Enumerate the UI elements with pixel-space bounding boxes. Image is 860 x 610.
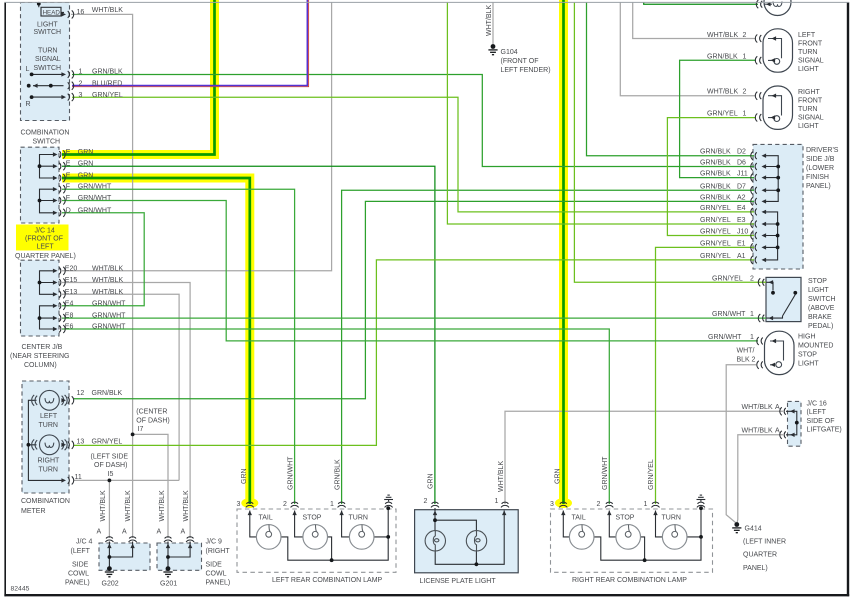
junction connector J/C 9 box [157, 543, 202, 570]
wire WHT/BLK center J/B E13 down to I5 row [62, 294, 179, 480]
svg-text:G414: G414 [745, 525, 762, 532]
page border left [4, 2, 6, 596]
svg-text:LEFT: LEFT [40, 413, 58, 420]
left rear lamp TAIL bulb feed [250, 511, 257, 537]
wire WHT/BLK J/C16 pin A to ground G414 [737, 435, 783, 523]
svg-text:GRN/WHT: GRN/WHT [92, 300, 126, 307]
svg-text:(NEAR STEERING: (NEAR STEERING [10, 353, 70, 360]
svg-text:WHT/BLK: WHT/BLK [707, 32, 738, 39]
svg-text:E3: E3 [737, 217, 746, 224]
turn signal switch R contact [32, 96, 64, 98]
svg-text:GRN/WHT: GRN/WHT [712, 311, 746, 318]
wire GRN/WHT J/C14 pin D to center J/B E4 [62, 213, 144, 306]
wire GRN/WHT J/C14 pin F to left rear lamp pin 2 [62, 189, 295, 504]
svg-text:TURN: TURN [39, 422, 58, 429]
svg-text:QUARTER PANEL): QUARTER PANEL) [15, 253, 76, 260]
left rear lamp TAIL bulb [256, 525, 281, 550]
svg-text:2: 2 [424, 498, 428, 505]
combination meter pin chevrons [68, 396, 74, 404]
svg-text:GRN/WHT: GRN/WHT [92, 313, 126, 320]
svg-text:A: A [775, 427, 780, 434]
svg-text:WHT/BLK: WHT/BLK [125, 490, 132, 521]
right rear lamp internal ground bus [594, 508, 701, 560]
junction connector J/C 4 box [99, 543, 150, 570]
svg-text:RIGHT: RIGHT [38, 457, 61, 464]
svg-text:GRN/BLK: GRN/BLK [92, 68, 123, 75]
J/C 16 internal bus [786, 411, 797, 435]
center J/B internal bus WHT/BLK [40, 271, 56, 295]
wire WHT/BLK combination meter pin 11 to I5 [74, 479, 179, 481]
svg-text:FRONT: FRONT [798, 97, 823, 104]
svg-text:GRN: GRN [241, 468, 248, 484]
wire WHT/BLK license plate pin 1 up and right to J/C16 pin A [505, 411, 783, 504]
svg-text:12: 12 [77, 390, 85, 397]
svg-text:GRN/YEL: GRN/YEL [700, 253, 731, 260]
svg-text:METER: METER [21, 508, 46, 515]
arrows into combination switch pins [61, 12, 66, 16]
left rear lamp internal arrows [248, 511, 252, 516]
svg-text:13: 13 [77, 438, 85, 445]
svg-text:GRN: GRN [554, 468, 561, 484]
svg-text:WHT/BLK: WHT/BLK [100, 490, 107, 521]
svg-text:STOP: STOP [303, 515, 322, 522]
combination switch box [21, 3, 70, 121]
svg-text:GRN/BLK: GRN/BLK [92, 390, 123, 397]
wire WHT/BLK top edge to ground G104 [492, 3, 494, 45]
svg-text:GRN: GRN [427, 473, 434, 489]
ground G414 [732, 522, 741, 533]
svg-text:(FRONT OF: (FRONT OF [501, 58, 539, 65]
center J/B internal bus GRN/WHT [40, 306, 56, 329]
svg-text:J/C 4: J/C 4 [76, 539, 92, 546]
svg-text:D: D [66, 207, 71, 214]
svg-text:WHT/BLK: WHT/BLK [486, 5, 493, 36]
svg-text:PEDAL): PEDAL) [808, 323, 833, 330]
left rear lamp internal ground bus [281, 508, 388, 560]
svg-text:FRONT: FRONT [798, 40, 823, 47]
svg-text:GRN/BLK: GRN/BLK [700, 183, 731, 190]
highlight blob right rear pin 3 [555, 498, 572, 508]
svg-text:GRN/BLK: GRN/BLK [707, 54, 738, 61]
svg-text:GRN/YEL: GRN/YEL [700, 229, 731, 236]
svg-text:E4: E4 [65, 300, 74, 307]
page border right [847, 2, 849, 596]
svg-text:TURN: TURN [662, 515, 681, 522]
svg-text:GRN/BLK: GRN/BLK [700, 194, 731, 201]
svg-text:STOP: STOP [798, 352, 817, 359]
svg-text:TURN: TURN [39, 467, 58, 474]
node I5 junction dot [108, 479, 112, 483]
right rear lamp TURN bulb [662, 525, 687, 550]
svg-text:FINISH: FINISH [806, 174, 829, 181]
svg-text:R: R [26, 101, 31, 108]
svg-text:GRN/YEL: GRN/YEL [92, 92, 123, 99]
center J/B pin chevrons and arrows [53, 269, 58, 273]
svg-text:TAIL: TAIL [259, 515, 273, 522]
svg-text:GRN/BLK: GRN/BLK [700, 171, 731, 178]
J/C 4 internal arrows and dot [107, 544, 111, 549]
svg-text:SIDE OF: SIDE OF [807, 418, 835, 425]
svg-text:LEFT REAR COMBINATION LAMP: LEFT REAR COMBINATION LAMP [272, 577, 383, 584]
svg-text:F: F [66, 195, 70, 202]
wire GRN highlighted core top feed to J/C14 pin E [62, 0, 215, 155]
right rear lamp TAIL bulb [569, 525, 594, 550]
svg-text:GRN/YEL: GRN/YEL [700, 240, 731, 247]
svg-text:TURN: TURN [38, 47, 57, 54]
svg-text:E: E [66, 173, 71, 180]
highlight blob left rear pin 3 [241, 498, 258, 508]
svg-text:1: 1 [644, 501, 648, 508]
driver's J/B bus junction dots [776, 165, 780, 169]
svg-text:2: 2 [752, 357, 756, 364]
svg-text:SIGNAL: SIGNAL [798, 58, 824, 65]
J/C 4 internal wiring [109, 542, 132, 569]
svg-text:TAIL: TAIL [572, 515, 586, 522]
right rear lamp STOP bulb feed [609, 511, 616, 537]
svg-text:STOP: STOP [808, 278, 827, 285]
combination meter RIGHT TURN indicator bulb [32, 435, 67, 455]
J/C 14 pin chevrons and arrows [53, 152, 58, 156]
svg-text:A2: A2 [737, 194, 746, 201]
svg-text:LIFTGATE): LIFTGATE) [807, 427, 842, 434]
svg-text:1: 1 [330, 501, 334, 508]
top parking light bulb (cut at edge) [764, 0, 791, 16]
svg-text:GRN/WHT: GRN/WHT [78, 195, 112, 202]
svg-text:LEFT: LEFT [798, 32, 816, 39]
wire GRN/BLK top edge to driver's J/B D2 [587, 3, 755, 156]
svg-text:GRN/BLK: GRN/BLK [700, 160, 731, 167]
svg-text:WHT/BLK: WHT/BLK [742, 404, 773, 411]
svg-text:E8: E8 [65, 313, 74, 320]
head light switch HEAD contact [41, 7, 61, 16]
svg-text:J/C 9: J/C 9 [206, 539, 222, 546]
svg-text:WHT/: WHT/ [737, 348, 755, 355]
svg-text:WHT/BLK: WHT/BLK [92, 265, 123, 272]
svg-text:DRIVER'S: DRIVER'S [806, 147, 839, 154]
svg-text:(FRONT OF: (FRONT OF [25, 236, 63, 243]
center J/B bus junction dots [38, 281, 42, 285]
wire WHT/BLK I5 down to J/C4 pin A [108, 480, 110, 538]
svg-text:A: A [775, 404, 780, 411]
svg-text:CENTER J/B: CENTER J/B [22, 344, 63, 351]
driver's J/B internal arrows [762, 154, 767, 158]
svg-text:1: 1 [79, 68, 83, 75]
svg-text:L: L [26, 66, 30, 73]
svg-text:SIDE: SIDE [206, 562, 223, 569]
svg-text:3: 3 [237, 501, 241, 508]
J/C 9 pin chevrons [164, 537, 172, 542]
wire WHT/BLK center J/B E20 up to top edge [62, 3, 332, 271]
node I7 junction dot [131, 433, 135, 437]
junction connector J/C 14 box [21, 147, 60, 223]
svg-text:WHT/BLK: WHT/BLK [183, 490, 190, 521]
svg-text:PANEL): PANEL) [206, 580, 231, 587]
svg-text:TURN: TURN [798, 49, 817, 56]
svg-text:WHT/BLK: WHT/BLK [159, 490, 166, 521]
svg-text:WHT/BLK: WHT/BLK [498, 461, 505, 492]
svg-text:COLUMN): COLUMN) [24, 362, 57, 369]
left rear lamp STOP bulb feed [295, 511, 303, 537]
svg-text:J11: J11 [737, 171, 748, 178]
J/C 9 internal arrows and dot [166, 544, 170, 549]
svg-text:HEAD: HEAD [43, 9, 61, 16]
svg-text:D2: D2 [737, 149, 746, 156]
svg-text:G202: G202 [102, 580, 119, 587]
svg-text:BLU/RED: BLU/RED [92, 80, 122, 87]
svg-text:2: 2 [283, 501, 287, 508]
wire GRN/BLK driver's J/B A2 to combination meter pin 12 [74, 201, 754, 398]
svg-text:(LOWER: (LOWER [806, 165, 834, 172]
wire WHT/BLK center J/B E15 down to J/C9 pin A [62, 283, 190, 539]
wire GRN/YEL right front turn signal pin 1 to driver's J/B J10 [667, 118, 756, 236]
right rear lamp STOP bulb [616, 525, 641, 550]
svg-text:STOP: STOP [616, 515, 635, 522]
J/C 4 pin chevrons [105, 537, 113, 542]
J/C 9 internal wiring [168, 542, 190, 569]
svg-text:I7: I7 [138, 426, 144, 433]
svg-text:D6: D6 [737, 160, 746, 167]
svg-text:GRN/YEL: GRN/YEL [700, 217, 731, 224]
center J/B box [21, 260, 60, 336]
wire GRN/YEL top edge to driver's J/B E3 [447, 3, 754, 225]
svg-text:COWL: COWL [206, 571, 227, 578]
combination switch contact dots [37, 2, 41, 6]
svg-text:E13: E13 [65, 289, 78, 296]
svg-text:1: 1 [495, 498, 499, 505]
svg-text:1: 1 [743, 111, 747, 118]
svg-text:16: 16 [77, 9, 85, 16]
svg-text:E15: E15 [65, 277, 78, 284]
right rear lamp chassis ground and dots [697, 495, 706, 501]
svg-text:SIGNAL: SIGNAL [798, 115, 824, 122]
svg-text:MOUNTED: MOUNTED [798, 343, 833, 350]
svg-text:82445: 82445 [11, 586, 30, 593]
svg-text:D7: D7 [737, 183, 746, 190]
svg-text:SWITCH: SWITCH [34, 29, 62, 36]
wire WHT/BLK high mounted stop light pin 2 to ground G414 [726, 365, 756, 523]
wire GRN/WHT J/C14 pin F to high mounted stop light pin 1 [62, 201, 758, 341]
right rear lamp TURN bulb feed [656, 511, 663, 537]
svg-text:RIGHT: RIGHT [798, 89, 821, 96]
svg-text:(LEFT SIDE: (LEFT SIDE [91, 453, 129, 460]
highlighted trace: top feed to right rear lamp pin 3 [559, 0, 568, 502]
svg-text:3: 3 [550, 501, 554, 508]
svg-text:SWITCH: SWITCH [33, 138, 61, 145]
combination meter bus dot [27, 443, 31, 447]
junction connector J/C 16 box [788, 401, 802, 446]
wire GRN top bulb feed [644, 2, 758, 4]
page border bottom [4, 594, 849, 596]
svg-text:PANEL): PANEL) [743, 565, 768, 572]
left rear combination lamp box [237, 509, 396, 572]
right front turn signal light [763, 86, 793, 129]
stop light switch pins arrows dots [758, 278, 764, 286]
svg-text:OF DASH): OF DASH) [136, 417, 169, 424]
wire GRN/YEL turn signal switch pin 3 to driver's J/B E4 [72, 97, 754, 212]
svg-text:3: 3 [79, 92, 83, 99]
svg-text:PANEL): PANEL) [65, 580, 90, 587]
svg-text:1: 1 [750, 311, 754, 318]
svg-text:LIGHT: LIGHT [798, 123, 819, 130]
svg-text:G201: G201 [160, 580, 177, 587]
J/C 16 pin chevrons arrows dot [780, 407, 786, 415]
combination switch pin chevrons [68, 10, 74, 18]
driver's J/B internal bus GRN/YEL [763, 212, 778, 260]
license plate light box [415, 510, 519, 573]
svg-text:GRN/YEL: GRN/YEL [700, 205, 731, 212]
svg-text:LEFT FENDER): LEFT FENDER) [501, 67, 551, 74]
wire WHT/BLK I7 branch to J/C9 pin A [133, 434, 168, 538]
svg-text:F: F [66, 184, 70, 191]
right rear lamp internal arrows [561, 511, 565, 516]
J/C 14 internal bus E [40, 155, 56, 179]
stop light switch box [766, 277, 801, 321]
high mounted stop light [765, 331, 795, 374]
svg-text:GRN/WHT: GRN/WHT [92, 324, 126, 331]
svg-text:E1: E1 [737, 240, 746, 247]
svg-text:GRN: GRN [78, 149, 94, 156]
svg-text:GRN/WHT: GRN/WHT [78, 207, 112, 214]
ground G202 [105, 566, 114, 577]
license plate light bulb 1 [425, 531, 445, 551]
svg-text:GRN/WHT: GRN/WHT [708, 334, 742, 341]
svg-text:SIGNAL: SIGNAL [35, 56, 61, 63]
svg-text:GRN/BLK: GRN/BLK [700, 149, 731, 156]
svg-text:2: 2 [743, 32, 747, 39]
left rear lamp STOP bulb [303, 525, 328, 550]
svg-text:LIGHT: LIGHT [798, 66, 819, 73]
wire WHT/BLK top edge to left front turn signal pin 2 [633, 3, 756, 39]
svg-text:WHT/BLK: WHT/BLK [742, 427, 773, 434]
svg-text:GRN: GRN [78, 161, 94, 168]
page border top [4, 1, 849, 3]
svg-text:2: 2 [597, 501, 601, 508]
svg-text:QUARTER: QUARTER [743, 552, 777, 559]
left rear lamp pin chevrons [246, 502, 254, 507]
wire GRN/WHT center J/B E6 to right rear lamp pin 2 [62, 329, 609, 504]
svg-text:LEFT: LEFT [37, 244, 55, 251]
turn signal switch L contact [32, 73, 64, 75]
svg-text:GRN/YEL: GRN/YEL [712, 275, 743, 282]
wire GRN J/C14 pin E to license plate pin 2 [62, 166, 435, 504]
svg-text:E: E [66, 149, 71, 156]
wire GRN/BLK turn signal switch pin 1 to driver's J/B D6 [72, 75, 754, 167]
svg-text:HIGH: HIGH [798, 334, 816, 341]
svg-text:GRN/YEL: GRN/YEL [707, 111, 738, 118]
svg-text:(LEFT INNER: (LEFT INNER [743, 538, 786, 545]
svg-text:COMBINATION: COMBINATION [21, 498, 70, 505]
highlight box on J/C 14 label [16, 225, 69, 251]
svg-text:E6: E6 [65, 324, 74, 331]
wire GRN/YEL driver's J/B A1 to combination meter pin 13 [74, 260, 754, 446]
stop light switch contacts and lever [767, 282, 796, 318]
svg-text:2: 2 [79, 80, 83, 87]
left rear lamp TURN bulb [349, 525, 374, 550]
wire GRN/YEL top edge to stop light switch pin 2 [574, 3, 766, 283]
combination meter box [22, 381, 69, 493]
driver's J/B pin chevrons [751, 152, 757, 160]
arrows into combination meter pins [61, 398, 66, 402]
right rear combination lamp box [551, 509, 713, 572]
svg-text:LIGHT: LIGHT [808, 287, 829, 294]
svg-text:LIGHT: LIGHT [37, 22, 58, 29]
svg-text:11: 11 [75, 474, 82, 481]
left rear lamp chassis ground and dots [384, 495, 393, 501]
svg-text:(LEFT: (LEFT [71, 548, 91, 555]
svg-text:GRN/WHT: GRN/WHT [287, 456, 294, 490]
wire GRN/BLK driver's J/B D7 to left rear lamp pin 1 [342, 190, 754, 504]
svg-text:2: 2 [750, 275, 754, 282]
svg-text:TURN: TURN [798, 106, 817, 113]
svg-text:J10: J10 [737, 229, 748, 236]
svg-text:LICENSE PLATE LIGHT: LICENSE PLATE LIGHT [420, 578, 497, 585]
svg-text:OF DASH): OF DASH) [94, 462, 127, 469]
combination meter internal ground bus [28, 400, 63, 480]
right rear lamp TAIL bulb feed [563, 511, 569, 537]
svg-text:2: 2 [743, 89, 747, 96]
svg-text:(RIGHT: (RIGHT [206, 548, 231, 555]
driver's J/B internal bus GRN/BLK [763, 156, 778, 202]
svg-text:GRN: GRN [78, 173, 94, 180]
svg-text:SIDE: SIDE [72, 562, 89, 569]
wire GRN highlighted core J/C14 pin E to left rear lamp pin 3 [62, 178, 250, 504]
svg-text:WHT/BLK: WHT/BLK [707, 89, 738, 96]
combination meter LEFT TURN indicator bulb [32, 390, 67, 410]
wire WHT/BLK pin16 combination switch to I7 to J/C4 pin A [71, 14, 133, 538]
license plate light internal wiring [435, 508, 504, 564]
svg-text:I5: I5 [108, 471, 114, 478]
wire BLU/RED turn signal switch pin 2 to top edge (blue) [72, 0, 307, 86]
svg-text:1: 1 [743, 54, 747, 61]
svg-text:BLK: BLK [737, 357, 751, 364]
svg-text:LIGHT: LIGHT [798, 361, 819, 368]
svg-text:GRN/YEL: GRN/YEL [648, 459, 655, 490]
svg-text:A1: A1 [737, 253, 746, 260]
svg-text:A: A [97, 529, 102, 536]
svg-text:A: A [122, 529, 127, 536]
highlighted tail-circuit trace: feed from top to J/C 14 pin E [62, 0, 215, 155]
svg-text:J/C 16: J/C 16 [807, 400, 827, 407]
J/C 14 bus junction dots [38, 164, 42, 168]
right rear lamp pin chevrons [559, 502, 567, 507]
svg-text:WHT/BLK: WHT/BLK [92, 7, 123, 14]
svg-text:E20: E20 [65, 265, 78, 272]
license plate light internal arrows and dots [433, 511, 437, 516]
svg-text:SIDE J/B: SIDE J/B [806, 156, 835, 163]
svg-text:G104: G104 [501, 49, 518, 56]
ground G201 [163, 566, 172, 577]
svg-text:SWITCH: SWITCH [34, 65, 62, 72]
svg-text:(CENTER: (CENTER [136, 409, 167, 416]
svg-text:PANEL): PANEL) [806, 183, 831, 190]
svg-text:E4: E4 [737, 205, 746, 212]
svg-text:J/C 14: J/C 14 [35, 227, 55, 234]
wire WHT/BLK top edge to right front turn signal pin 2 [620, 3, 756, 96]
wire GRN/WHT center J/B E8 to stop light switch pin 1 [62, 317, 766, 319]
svg-text:WHT/BLK: WHT/BLK [92, 277, 123, 284]
svg-text:GRN/YEL: GRN/YEL [92, 438, 123, 445]
license plate light bulb 2 [466, 531, 486, 551]
svg-text:RIGHT REAR COMBINATION LAMP: RIGHT REAR COMBINATION LAMP [572, 577, 687, 584]
license plate light pin chevrons [431, 502, 439, 507]
svg-text:COMBINATION: COMBINATION [21, 129, 70, 136]
highlighted trace: J/C 14 pin E to left rear lamp pin 3 [62, 178, 250, 502]
svg-text:1: 1 [750, 334, 754, 341]
svg-text:BRAKE: BRAKE [808, 314, 832, 321]
svg-text:A: A [157, 529, 162, 536]
turn signal switch common contact [33, 85, 64, 87]
svg-text:(LEFT: (LEFT [807, 409, 827, 416]
